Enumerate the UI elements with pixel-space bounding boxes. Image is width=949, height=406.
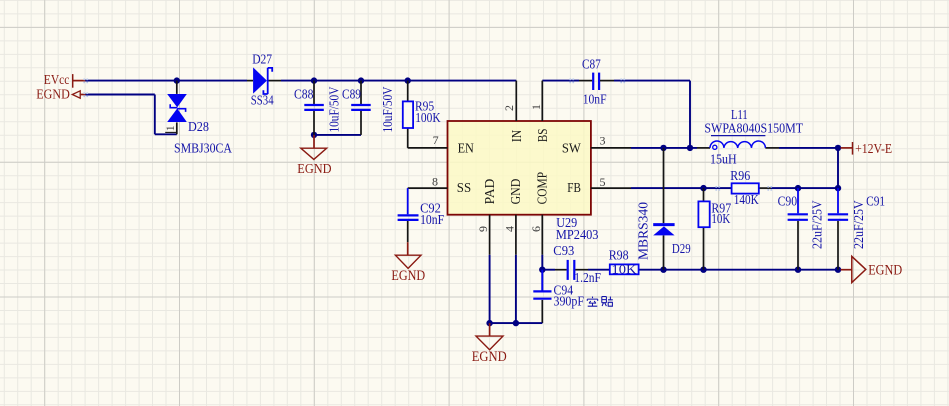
ground EGND under C88: [297, 135, 331, 176]
wire D27 cathode to IN pin rail: [281, 80, 516, 82]
wire no-ERC snap marks (decorative): [83, 79, 85, 81]
svg-text:EGND: EGND: [297, 161, 331, 176]
svg-text:C88: C88: [294, 86, 314, 101]
wire FB rail: [631, 187, 732, 189]
pin 4 GND lead: [515, 215, 517, 255]
svg-text:SWPA8040S150MT: SWPA8040S150MT: [704, 121, 803, 136]
junction node FB/R97: [700, 185, 706, 191]
wire PAD column: [489, 255, 491, 323]
svg-text:D27: D27: [252, 51, 272, 66]
diode D29 MBRS340: [653, 148, 674, 270]
junction node C88/top: [311, 77, 317, 83]
capacitor C93 1.2nF: [555, 260, 588, 280]
svg-text:C89: C89: [342, 86, 361, 101]
wire +12V down to output net: [837, 148, 839, 188]
pin 6 COMP lead: [541, 215, 543, 255]
junction node SW/D29: [660, 145, 666, 151]
resistor R96 140K: [732, 183, 771, 193]
svg-text:2: 2: [502, 105, 516, 111]
capacitor C90 22uF/25V: [788, 188, 808, 270]
capacitor C92 10nF: [398, 188, 419, 242]
svg-text:C90: C90: [778, 194, 798, 209]
svg-text:140K: 140K: [734, 192, 759, 207]
svg-text:22uF/25V: 22uF/25V: [809, 200, 824, 249]
wire SW rail: [631, 147, 697, 149]
svg-text:EGND: EGND: [868, 263, 902, 279]
wire COMP to C94: [541, 270, 543, 291]
capacitor C88: [304, 81, 324, 135]
pin 2 IN lead: [515, 81, 517, 121]
junction node PAD gnd: [486, 320, 492, 326]
pin 1 BS lead: [541, 81, 543, 121]
wire C88-C89 bottom link: [314, 134, 361, 136]
wire bottom gnd link under IC: [490, 322, 543, 324]
svg-text:3: 3: [600, 133, 606, 147]
svg-text:D29: D29: [672, 241, 691, 256]
junction node SW/C87: [687, 145, 693, 151]
port EGND left: [72, 91, 80, 98]
svg-text:EGND: EGND: [391, 268, 425, 284]
svg-text:100K: 100K: [415, 110, 441, 125]
wire R96 right to output net: [771, 187, 838, 189]
wire C94 bottom to gnd: [541, 300, 543, 323]
capacitor C94 390pF: [533, 270, 551, 299]
svg-text:D28: D28: [188, 119, 209, 134]
svg-text:C87: C87: [582, 56, 601, 71]
junction node gnd/D29: [660, 267, 666, 273]
svg-text:GND: GND: [508, 178, 523, 204]
wire COMP column: [541, 255, 543, 270]
junction node gnd/C91: [835, 267, 841, 273]
wire gnd rail segments: [542, 269, 555, 271]
svg-text:6: 6: [529, 226, 543, 232]
junction node out/C91: [835, 185, 841, 191]
wire EGND to D28 bottom: [155, 133, 177, 135]
pin 7 EN lead: [408, 147, 448, 149]
svg-text:EGND: EGND: [472, 349, 507, 365]
pin 5 FB lead: [591, 187, 631, 189]
svg-text:1: 1: [163, 125, 177, 131]
junction node R95/top: [405, 77, 411, 83]
svg-text:C91: C91: [866, 194, 885, 209]
svg-text:EGND: EGND: [36, 87, 70, 102]
svg-text:IN: IN: [509, 130, 524, 142]
label C94 value chinese kong-tie: [587, 297, 597, 307]
svg-text:22uF/25V: 22uF/25V: [851, 200, 866, 249]
wire GND column: [515, 255, 517, 323]
svg-text:1.2nF: 1.2nF: [574, 270, 601, 285]
svg-text:SMBJ30CA: SMBJ30CA: [174, 140, 232, 155]
svg-text:PAD: PAD: [482, 178, 497, 204]
power port EVcc: [72, 74, 74, 88]
junction node gnd/C90: [795, 267, 801, 273]
diode D28 SMBJ30CA (TVS): [167, 81, 187, 135]
svg-text:FB: FB: [567, 180, 581, 195]
svg-text:10K: 10K: [612, 263, 637, 277]
junction node COMP/C93: [539, 267, 545, 273]
svg-text:BS: BS: [535, 129, 550, 143]
junction node out/C90: [795, 185, 801, 191]
wire EGND left vertical: [154, 95, 156, 135]
ground EGND under PAD: [472, 323, 507, 365]
port EGND right: [841, 256, 903, 282]
resistor R97 10K: [698, 188, 709, 270]
svg-text:MP2403: MP2403: [556, 227, 599, 242]
inductor L11 SWPA8040S150MT 15uH: [697, 141, 779, 149]
svg-text:SS: SS: [457, 180, 471, 195]
svg-text:MBRS340: MBRS340: [635, 202, 650, 260]
svg-text:390pF: 390pF: [554, 294, 585, 309]
power port +12V-E: [841, 142, 893, 157]
op-amp U29 MP2403 body: [448, 121, 591, 215]
resistor R95 100K: [403, 81, 413, 148]
diode D27 SS34: [247, 67, 281, 94]
svg-text:4: 4: [502, 226, 516, 232]
svg-text:5: 5: [600, 175, 606, 189]
svg-text:R98: R98: [609, 248, 629, 263]
wire L11 to +12V-E: [779, 147, 841, 149]
capacitor C91 22uF/25V: [828, 188, 848, 270]
svg-text:10K: 10K: [711, 211, 730, 226]
junction node +12V: [835, 145, 841, 151]
pin 9 PAD lead: [489, 215, 491, 255]
junction node gnd/R97: [700, 267, 706, 273]
svg-text:10uF/50V: 10uF/50V: [327, 86, 342, 132]
svg-text:EVcc: EVcc: [44, 73, 70, 88]
resistor R98 10K: [610, 263, 639, 277]
svg-text:SS34: SS34: [251, 93, 274, 108]
junction node C89/top: [358, 77, 364, 83]
wire EVcc rail top: [85, 80, 247, 82]
svg-text:EN: EN: [458, 141, 475, 156]
svg-text:7: 7: [433, 133, 439, 147]
svg-text:SW: SW: [562, 141, 581, 156]
capacitor C89: [351, 81, 371, 135]
pin 3 SW lead: [591, 147, 631, 149]
wire EGND left run: [86, 94, 155, 96]
junction node GND gnd: [513, 320, 519, 326]
svg-text:+12V-E: +12V-E: [855, 142, 892, 157]
svg-text:10nF: 10nF: [583, 92, 607, 107]
junction node D28/top: [174, 77, 180, 83]
wire C87 to SW net vertical: [614, 80, 690, 82]
svg-text:10uF/50V: 10uF/50V: [380, 86, 395, 132]
svg-text:COMP: COMP: [534, 172, 549, 205]
pin 8 SS lead: [408, 187, 448, 189]
svg-text:10nF: 10nF: [420, 212, 444, 227]
wire BS to C87: [542, 80, 579, 82]
ground EGND under C92: [391, 242, 425, 284]
svg-text:1: 1: [529, 104, 543, 110]
svg-text:9: 9: [476, 226, 490, 232]
capacitor C87 10nF: [579, 73, 614, 90]
svg-text:15uH: 15uH: [710, 151, 737, 166]
svg-text:C93: C93: [553, 243, 574, 258]
svg-text:R96: R96: [730, 168, 750, 183]
svg-text:8: 8: [432, 174, 438, 188]
junction node C88-C89 gnd: [311, 132, 317, 138]
